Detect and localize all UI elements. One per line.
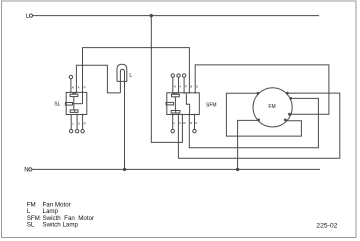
wire L rail (top) (33, 15, 319, 17)
wire SFM bottom pin to FM upper-right tap (178, 93, 339, 158)
terminal SL bottom R (82, 115, 84, 130)
wire SFM bottom pin to FM right tap (189, 98, 318, 147)
wire SL internal pole (73, 97, 75, 110)
contact SFM upper (172, 94, 180, 97)
terminal SFM bottom L (172, 115, 174, 130)
svg-text:A: A (78, 86, 80, 90)
wire SFM internal link (186, 93, 189, 115)
svg-text:A: A (179, 85, 181, 89)
junction FM lead / N rail (236, 168, 239, 171)
junction lamp lead / N rail (123, 168, 126, 171)
switch SL (54, 75, 86, 132)
wire FM upper-left tap loop to FM lower tap (226, 93, 301, 136)
terminal SL bottom L (70, 115, 72, 130)
terminal SFM top N (172, 77, 174, 93)
lamp L (117, 64, 132, 81)
tap FM lower-right (288, 113, 291, 116)
wire SFM internal pole (174, 97, 176, 111)
legend (27, 201, 94, 228)
junction SL top pins (76, 92, 78, 94)
junction SL bottom pins (76, 114, 78, 116)
wire SL pin P to SFM top pin (83, 48, 190, 93)
contact SL upper (70, 94, 78, 96)
svg-text:D: D (195, 121, 197, 125)
svg-text:N: N (174, 85, 176, 89)
wire FM lower-left tap to N rail (238, 120, 259, 169)
svg-text:SFM: SFM (206, 103, 217, 109)
svg-text:U: U (179, 121, 181, 125)
wire L rail to SFM bottom pin U (151, 16, 182, 143)
svg-text:L: L (72, 122, 74, 126)
tap FM upper-right (286, 92, 289, 95)
tap FM upper-left (257, 92, 260, 95)
wire lamp left lead (119, 81, 121, 93)
wire SL internal link (82, 92, 84, 103)
svg-text:SL: SL (27, 221, 35, 228)
svg-text:M: M (183, 121, 186, 125)
svg-text:FM: FM (268, 104, 275, 110)
contact SL lower (70, 110, 78, 113)
junction SFM top pins (172, 92, 174, 94)
tap FM right (289, 97, 292, 100)
terminal N (neutral) (24, 168, 32, 174)
contact SFM lower (171, 111, 180, 114)
svg-text:R: R (84, 122, 86, 126)
terminal SFM top A (178, 77, 180, 93)
svg-text:P: P (185, 85, 187, 89)
tap FM lower (284, 119, 287, 122)
wire SL pin A to lamp left lead (76, 65, 120, 93)
terminal SL bottom U (76, 115, 78, 130)
terminal SFM bottom D (194, 115, 196, 130)
tap FM lower-left (257, 119, 260, 122)
wire SFM top pin to FM lower-right tap (195, 65, 329, 114)
svg-text:N: N (24, 168, 28, 174)
junction L rail / SFM feed (150, 14, 153, 17)
motor FM (253, 88, 292, 127)
svg-text:R: R (190, 121, 192, 125)
terminal L (line) (26, 14, 33, 20)
junction SFM bottom pins (172, 114, 174, 116)
svg-text:P: P (84, 86, 86, 90)
svg-text:D: D (196, 85, 198, 89)
svg-text:SL: SL (54, 101, 60, 107)
svg-text:L: L (174, 121, 176, 125)
svg-text:L: L (129, 73, 132, 79)
wire N rail (bottom) (32, 168, 320, 170)
svg-text:N: N (72, 86, 74, 90)
svg-text:Switch Lamp: Switch Lamp (43, 221, 79, 228)
switch SFM (166, 74, 217, 133)
svg-text:U: U (78, 122, 80, 126)
terminal SL top N (70, 79, 72, 93)
terminal SFM top P (183, 77, 185, 93)
contact SL left (65, 103, 72, 106)
svg-text:225-02: 225-02 (316, 222, 337, 229)
wire lamp right lead to N rail (124, 81, 126, 169)
contact SFM left (166, 102, 174, 105)
svg-text:B: B (190, 85, 192, 89)
